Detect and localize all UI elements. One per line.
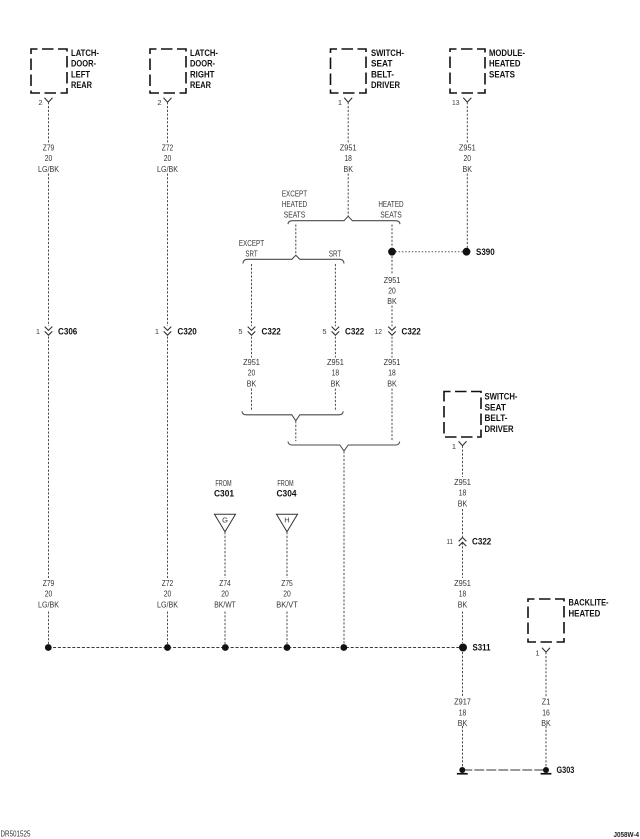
- svg-text:Z951: Z951: [384, 357, 401, 367]
- svg-text:1: 1: [36, 327, 40, 336]
- svg-text:REAR: REAR: [190, 80, 211, 91]
- svg-text:BACKLITE-: BACKLITE-: [569, 598, 609, 609]
- svg-text:SEATS: SEATS: [489, 69, 515, 80]
- svg-text:H: H: [284, 516, 289, 525]
- svg-text:18: 18: [459, 707, 467, 717]
- svg-text:HEATED: HEATED: [569, 608, 601, 619]
- svg-text:SWITCH-: SWITCH-: [371, 48, 404, 59]
- svg-text:C322: C322: [262, 327, 281, 338]
- svg-text:Z951: Z951: [454, 578, 471, 588]
- svg-text:18: 18: [459, 589, 467, 599]
- svg-text:MODULE-: MODULE-: [489, 48, 525, 59]
- svg-text:RIGHT: RIGHT: [190, 69, 215, 80]
- svg-text:BK: BK: [463, 164, 473, 174]
- svg-text:G303: G303: [557, 765, 575, 776]
- svg-text:EXCEPT: EXCEPT: [239, 238, 264, 248]
- svg-text:18: 18: [332, 368, 340, 378]
- svg-text:BK: BK: [541, 718, 551, 728]
- svg-text:11: 11: [447, 537, 454, 546]
- svg-text:S311: S311: [473, 643, 492, 654]
- svg-text:BK: BK: [458, 599, 468, 609]
- svg-text:C301: C301: [214, 489, 235, 500]
- svg-text:DR501525: DR501525: [1, 829, 31, 839]
- svg-text:Z917: Z917: [454, 697, 471, 707]
- svg-text:SRT: SRT: [245, 248, 257, 258]
- svg-text:C304: C304: [277, 489, 298, 500]
- svg-text:C320: C320: [178, 327, 197, 338]
- svg-text:Z1: Z1: [542, 697, 551, 707]
- svg-text:BELT-: BELT-: [371, 69, 394, 80]
- svg-text:Z72: Z72: [162, 578, 174, 588]
- svg-text:BK: BK: [387, 296, 397, 306]
- svg-text:BK: BK: [458, 498, 468, 508]
- svg-text:DRIVER: DRIVER: [485, 424, 514, 435]
- svg-text:DOOR-: DOOR-: [71, 59, 96, 70]
- svg-text:BK: BK: [331, 378, 341, 388]
- svg-text:HEATED: HEATED: [489, 59, 521, 70]
- svg-text:18: 18: [459, 488, 467, 498]
- svg-text:LATCH-: LATCH-: [190, 48, 218, 59]
- svg-text:1: 1: [338, 98, 342, 107]
- svg-text:18: 18: [344, 153, 352, 163]
- svg-text:5: 5: [238, 327, 242, 336]
- svg-text:SEAT: SEAT: [485, 402, 507, 413]
- svg-text:1: 1: [452, 442, 456, 451]
- svg-text:C322: C322: [345, 327, 364, 338]
- svg-text:20: 20: [464, 153, 472, 163]
- svg-text:1: 1: [535, 648, 539, 657]
- svg-text:SEATS: SEATS: [380, 210, 402, 220]
- svg-text:Z79: Z79: [43, 142, 55, 152]
- svg-text:BK: BK: [343, 164, 353, 174]
- svg-text:C322: C322: [472, 537, 491, 548]
- svg-text:13: 13: [452, 98, 460, 107]
- svg-text:20: 20: [283, 589, 291, 599]
- svg-text:Z79: Z79: [43, 578, 55, 588]
- svg-text:5: 5: [322, 327, 326, 336]
- svg-text:LG/BK: LG/BK: [157, 599, 178, 609]
- svg-text:J058W-4: J058W-4: [614, 830, 640, 839]
- svg-text:SWITCH-: SWITCH-: [485, 392, 518, 403]
- svg-text:BELT-: BELT-: [485, 413, 508, 424]
- svg-text:S390: S390: [476, 247, 495, 258]
- svg-text:BK: BK: [458, 718, 468, 728]
- svg-text:20: 20: [45, 153, 53, 163]
- svg-text:Z74: Z74: [219, 578, 231, 588]
- svg-text:HEATED: HEATED: [282, 199, 307, 209]
- svg-text:20: 20: [221, 589, 229, 599]
- svg-text:LG/BK: LG/BK: [38, 164, 59, 174]
- svg-text:18: 18: [388, 368, 396, 378]
- svg-text:C306: C306: [58, 327, 77, 338]
- svg-text:20: 20: [388, 286, 396, 296]
- svg-text:BK/VT: BK/VT: [276, 599, 298, 609]
- svg-text:Z72: Z72: [162, 142, 174, 152]
- svg-text:BK/WT: BK/WT: [214, 599, 236, 609]
- svg-text:LG/BK: LG/BK: [38, 599, 59, 609]
- svg-text:BK: BK: [387, 378, 397, 388]
- svg-text:EXCEPT: EXCEPT: [282, 188, 307, 198]
- svg-text:2: 2: [38, 98, 42, 107]
- svg-text:Z951: Z951: [459, 142, 476, 152]
- svg-text:DRIVER: DRIVER: [371, 80, 400, 91]
- svg-text:Z951: Z951: [454, 477, 471, 487]
- svg-text:HEATED: HEATED: [378, 199, 403, 209]
- svg-text:LEFT: LEFT: [71, 69, 90, 80]
- svg-text:SEAT: SEAT: [371, 59, 393, 70]
- svg-text:20: 20: [164, 153, 172, 163]
- svg-text:Z951: Z951: [384, 275, 401, 285]
- svg-text:G: G: [222, 516, 228, 525]
- svg-text:DOOR-: DOOR-: [190, 59, 215, 70]
- svg-text:2: 2: [157, 98, 161, 107]
- svg-text:SEATS: SEATS: [284, 210, 306, 220]
- svg-text:20: 20: [164, 589, 172, 599]
- svg-text:20: 20: [45, 589, 53, 599]
- svg-text:C322: C322: [402, 327, 421, 338]
- svg-text:1: 1: [155, 327, 159, 336]
- svg-text:12: 12: [375, 327, 383, 336]
- svg-text:REAR: REAR: [71, 80, 92, 91]
- svg-text:SRT: SRT: [329, 249, 341, 259]
- svg-text:Z951: Z951: [340, 142, 357, 152]
- svg-text:FROM: FROM: [277, 478, 293, 488]
- svg-text:20: 20: [248, 368, 256, 378]
- svg-text:Z951: Z951: [327, 357, 344, 367]
- svg-text:Z951: Z951: [243, 357, 260, 367]
- svg-text:LG/BK: LG/BK: [157, 164, 178, 174]
- svg-text:16: 16: [542, 707, 550, 717]
- svg-text:BK: BK: [247, 378, 257, 388]
- svg-text:Z75: Z75: [281, 578, 293, 588]
- svg-text:LATCH-: LATCH-: [71, 48, 99, 59]
- svg-text:FROM: FROM: [215, 478, 231, 488]
